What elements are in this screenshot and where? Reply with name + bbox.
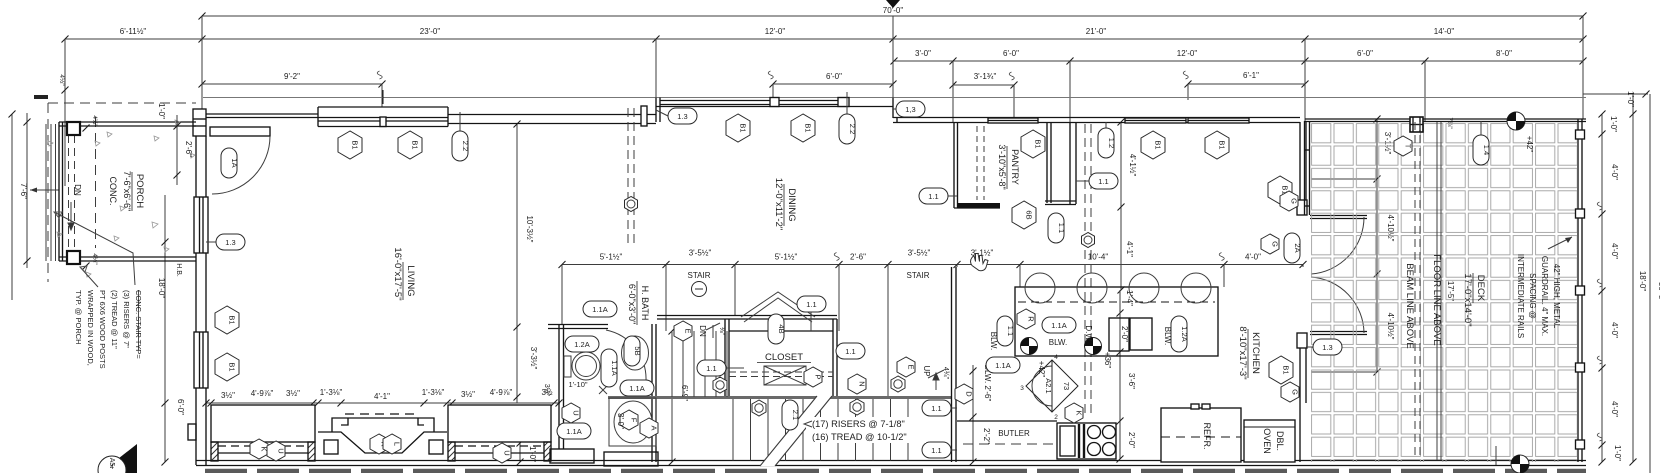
marker 1,3 <box>896 101 925 117</box>
bath walls <box>548 324 656 462</box>
dimension 6'-0" dining <box>768 71 896 88</box>
svg-text:3: 3 <box>1020 385 1024 392</box>
porch post top <box>67 122 80 135</box>
svg-text:5'-1½": 5'-1½" <box>600 253 623 262</box>
section marker A5 <box>98 444 137 473</box>
bottom right small dims 2'-5 1/2" / 1'-0" <box>517 411 538 466</box>
svg-text:21'-0": 21'-0" <box>1086 27 1107 36</box>
dimension row 3: 3'-0", 6'-0", 12'-0", 6'-0", 8'-0" <box>891 49 1587 65</box>
svg-text:(3) RISERS @ 7": (3) RISERS @ 7" <box>122 290 131 348</box>
svg-text:2.2: 2.2 <box>461 141 470 151</box>
svg-text:18'-0": 18'-0" <box>157 278 166 299</box>
nut symbol <box>713 377 727 393</box>
svg-text:1'-0": 1'-0" <box>1609 116 1618 132</box>
svg-text:2A: 2A <box>1293 243 1302 252</box>
svg-text:4'-9⅞": 4'-9⅞" <box>251 389 274 398</box>
stair number circle <box>692 282 707 297</box>
svg-text:B1: B1 <box>411 140 420 149</box>
DN small arrow closet hall <box>706 323 720 338</box>
hall north wall <box>657 316 837 320</box>
svg-text:1.1: 1.1 <box>1057 223 1066 233</box>
svg-text:DN: DN <box>73 184 82 196</box>
deck nook side wall <box>1305 121 1310 215</box>
svg-text:3½": 3½" <box>286 389 300 398</box>
window marker B1 x11 <box>338 131 362 159</box>
svg-text:2'-0": 2'-0" <box>1120 326 1129 342</box>
svg-text:E: E <box>684 328 693 333</box>
svg-text:1.1: 1.1 <box>1006 326 1015 336</box>
stadium 1.3 leaders <box>206 241 216 243</box>
left 7'-6" porch dim <box>9 111 60 301</box>
south bay window <box>318 414 447 454</box>
marker 1.2 <box>1098 128 1116 158</box>
svg-text:4: 4 <box>1054 354 1058 361</box>
marker 1.1A <box>557 423 591 439</box>
svg-text:STAIR: STAIR <box>907 271 930 280</box>
kitchen east wall lower <box>1297 333 1307 462</box>
nut symbol <box>752 400 766 416</box>
svg-text:1.1: 1.1 <box>706 364 716 373</box>
marker 1.1A <box>1042 317 1076 333</box>
svg-text:7'-6": 7'-6" <box>19 183 28 199</box>
marker G <box>1281 382 1300 402</box>
svg-text:STAIR: STAIR <box>688 271 711 280</box>
kitchen side dims 3'-6" / 2'-0" <box>1117 290 1137 463</box>
svg-text:R: R <box>1027 316 1036 322</box>
beam dashed line dining <box>628 108 634 247</box>
svg-text:1.4: 1.4 <box>1482 145 1491 155</box>
living front window <box>318 90 448 127</box>
svg-text:1.1A: 1.1A <box>629 384 644 393</box>
svg-text:6'-0": 6'-0" <box>826 72 842 81</box>
svg-text:B1: B1 <box>351 140 360 149</box>
svg-text:TYP. @ PORCH: TYP. @ PORCH <box>74 290 83 345</box>
svg-text:3'-5½": 3'-5½" <box>689 249 712 258</box>
marker 1.1A <box>583 301 617 317</box>
nut symbol <box>850 399 864 415</box>
spot symbol bottom <box>1511 455 1529 473</box>
svg-text:17'-0"x14'-0": 17'-0"x14'-0" <box>1462 273 1473 326</box>
extension lines from top dims <box>65 16 1583 186</box>
conc stair note block <box>74 290 143 369</box>
deck double doors <box>1310 215 1367 217</box>
svg-text:1'-0": 1'-0" <box>1626 91 1635 107</box>
marker F <box>620 410 639 430</box>
stair break band <box>760 396 832 466</box>
svg-text:+42": +42" <box>1525 136 1534 153</box>
bath vanity <box>622 336 649 370</box>
svg-text:6'-0": 6'-0" <box>1357 49 1373 58</box>
refrigerator <box>1161 404 1241 462</box>
marker 2.1 <box>782 400 800 430</box>
svg-text:BEAM LINE ABOVE: BEAM LINE ABOVE <box>1404 263 1415 349</box>
svg-text:UP: UP <box>922 365 931 376</box>
butler dims BLW 2'-6" / 2'-2" <box>970 365 993 466</box>
svg-text:1,3: 1,3 <box>905 105 915 114</box>
svg-text:3'-1¾": 3'-1¾" <box>974 72 997 81</box>
svg-text:OVEN: OVEN <box>1262 428 1272 454</box>
svg-text:2'-0": 2'-0" <box>1127 432 1136 448</box>
pantry shelf thick bar <box>957 203 1000 208</box>
guardrail note leader <box>1548 237 1572 249</box>
svg-text:BUTLER: BUTLER <box>998 429 1030 438</box>
marker 1.3 <box>1313 339 1342 355</box>
svg-text:N: N <box>858 381 867 386</box>
marker U <box>493 443 512 463</box>
svg-text:B1: B1 <box>228 315 237 324</box>
svg-text:4½": 4½" <box>58 74 66 86</box>
pantry walls <box>954 122 1000 208</box>
svg-text:PT 6X6 WOOD POSTS: PT 6X6 WOOD POSTS <box>98 290 107 369</box>
front door swing arc <box>212 136 270 194</box>
upper stair treads (DN) <box>672 331 727 397</box>
svg-text:6B: 6B <box>1025 210 1034 219</box>
svg-text:FLOOR LINE ABOVE: FLOOR LINE ABOVE <box>1431 254 1442 345</box>
closet hall dim 6'-9" <box>669 328 690 466</box>
UP arrow <box>928 370 944 390</box>
marker N <box>848 374 867 394</box>
room label KITCHEN <box>1237 326 1261 379</box>
marker 1.1 <box>797 296 826 312</box>
mud hall dim 4'-1 1/2" / 4'-1" <box>1117 119 1138 317</box>
marker 1.1 <box>697 360 726 376</box>
marker A <box>640 418 659 438</box>
svg-text:2'-2": 2'-2" <box>982 428 991 444</box>
marker 1.1 <box>922 442 951 458</box>
room label PANTRY <box>997 144 1020 189</box>
svg-text:1.1A: 1.1A <box>566 427 581 436</box>
svg-text:2'-6": 2'-6" <box>184 141 193 157</box>
marker K <box>1065 403 1084 423</box>
svg-text:1'-0": 1'-0" <box>528 446 537 462</box>
closet walls <box>725 319 837 397</box>
svg-text:G: G <box>1290 198 1299 204</box>
bath tub/sink oval <box>609 398 656 446</box>
beam dashed line mud hall <box>1085 124 1091 415</box>
marker 2.2 <box>452 131 470 161</box>
svg-text:1.1A: 1.1A <box>592 305 607 314</box>
porch roof dashed outline <box>48 103 196 282</box>
marker 6B <box>1012 201 1036 229</box>
svg-text:4'-0": 4'-0" <box>1610 401 1619 417</box>
entry wall segment <box>206 114 318 118</box>
marker T <box>1394 136 1413 156</box>
marker 1.1 <box>836 343 865 359</box>
spot symbol top <box>1507 112 1525 130</box>
svg-text:DN: DN <box>698 325 707 337</box>
svg-text:3½": 3½" <box>221 391 235 400</box>
porch post bottom <box>67 251 80 264</box>
marker P <box>804 367 823 387</box>
svg-text:(17) RISERS @ 7-1/8": (17) RISERS @ 7-1/8" <box>812 419 905 429</box>
svg-text:T: T <box>1404 144 1413 149</box>
svg-text:5'-1½": 5'-1½" <box>775 253 798 262</box>
svg-text:4'-1½": 4'-1½" <box>1128 154 1137 177</box>
dimension row 2: 6'-11 1/2", 23'-0", 12'-0", 21'-0", 14'-0" <box>62 27 1587 43</box>
svg-text:4'-0": 4'-0" <box>1610 322 1619 338</box>
marker 1.1 <box>997 316 1015 346</box>
svg-text:73: 73 <box>1062 382 1071 390</box>
bath door swing <box>606 330 646 381</box>
svg-text:B1: B1 <box>1218 140 1227 149</box>
right 18'-0" overall <box>1583 91 1660 473</box>
svg-text:PORCH: PORCH <box>134 174 145 208</box>
note leader bent <box>54 212 135 287</box>
stair dim row <box>559 249 1307 271</box>
guardrail posts <box>1576 130 1585 449</box>
svg-text:1'-10": 1'-10" <box>568 380 587 389</box>
svg-text:1'-3⅛": 1'-3⅛" <box>320 388 343 397</box>
svg-text:1.3: 1.3 <box>225 238 235 247</box>
svg-text:+36": +36" <box>1103 352 1112 369</box>
svg-text:3'-0": 3'-0" <box>616 413 625 429</box>
svg-text:1.2A: 1.2A <box>574 340 589 349</box>
svg-text:DBL.: DBL. <box>1275 431 1285 451</box>
marker G <box>1261 234 1280 254</box>
range <box>1057 423 1116 459</box>
svg-text:U: U <box>572 410 581 415</box>
svg-text:H. BATH: H. BATH <box>640 286 650 321</box>
svg-text:B1: B1 <box>1282 365 1291 374</box>
pantry/kitchen front wall <box>893 118 1300 124</box>
svg-text:42" HIGH, METAL: 42" HIGH, METAL <box>1552 264 1561 329</box>
marker E <box>897 357 916 377</box>
svg-text:18'-0": 18'-0" <box>1638 271 1647 292</box>
dining front window band <box>656 92 893 112</box>
svg-text:G: G <box>1291 389 1300 395</box>
svg-text:1.3: 1.3 <box>1322 343 1332 352</box>
lower level dashed heavy <box>205 469 1586 473</box>
svg-text:B1: B1 <box>228 362 237 371</box>
svg-text:12'-0": 12'-0" <box>1177 49 1198 58</box>
stair notes <box>806 417 926 443</box>
marker U <box>267 441 286 461</box>
svg-text:GUARDRAIL. 4" MAX.: GUARDRAIL. 4" MAX. <box>1540 256 1549 336</box>
hatched wall seg bath right <box>604 452 658 466</box>
svg-text:1.2: 1.2 <box>1107 138 1116 148</box>
svg-text:5B: 5B <box>633 346 642 355</box>
svg-text:SPACING @: SPACING @ <box>1528 273 1537 319</box>
svg-text:U: U <box>503 450 512 455</box>
porch roof corner black dash <box>34 95 48 99</box>
svg-text:L: L <box>393 442 402 446</box>
west wall <box>194 136 208 465</box>
svg-text:1A: 1A <box>230 158 239 167</box>
svg-text:6'-0": 6'-0" <box>1003 49 1019 58</box>
left 18'-0" interior <box>157 195 185 466</box>
marker 4B <box>768 314 786 344</box>
marker 1.1 <box>919 188 948 204</box>
marker 2A <box>1284 233 1302 263</box>
svg-text:G: G <box>1271 241 1280 247</box>
beam line above (dashed) <box>1415 122 1420 460</box>
kitchen island <box>1015 287 1218 356</box>
svg-text:6'-0"x3'-0": 6'-0"x3'-0" <box>627 284 637 324</box>
svg-text:(2) TREAD @ 11": (2) TREAD @ 11" <box>110 290 119 349</box>
room label DINING <box>773 178 797 230</box>
svg-text:E: E <box>907 364 916 369</box>
svg-text:B1: B1 <box>1154 140 1163 149</box>
deck north edge <box>1305 119 1586 122</box>
svg-text:DINING: DINING <box>786 188 797 221</box>
svg-text:F: F <box>630 418 639 423</box>
svg-text:4'-0": 4'-0" <box>1610 164 1619 180</box>
svg-text:CONC.: CONC. <box>108 177 118 206</box>
marker 1.1A <box>620 380 654 396</box>
marker U <box>562 403 581 423</box>
marker G <box>1280 191 1299 211</box>
hatched wall seg bath left <box>550 449 594 463</box>
svg-text:4½": 4½" <box>91 253 99 265</box>
porch beam dashed <box>69 135 75 251</box>
svg-text:BLW.: BLW. <box>1049 338 1068 347</box>
svg-text:1.1: 1.1 <box>845 347 855 356</box>
svg-text:2.1: 2.1 <box>791 410 800 420</box>
svg-text:BLW.: BLW. <box>989 332 998 351</box>
svg-text:1.3: 1.3 <box>677 112 687 121</box>
svg-text:K: K <box>1075 410 1084 415</box>
marker 1.1 <box>922 400 951 416</box>
closet gable peak <box>741 292 815 322</box>
mud closet walls <box>1045 122 1076 205</box>
svg-text:B1: B1 <box>1034 139 1043 148</box>
south window 1 <box>211 405 315 461</box>
svg-text:D: D <box>965 391 974 397</box>
svg-text:1.1A: 1.1A <box>610 360 619 375</box>
svg-text:3'-5½": 3'-5½" <box>908 249 931 258</box>
svg-text:1.1: 1.1 <box>931 404 941 413</box>
svg-text:A5: A5 <box>108 458 115 467</box>
svg-text:8'-0": 8'-0" <box>1496 49 1512 58</box>
kitchen-front wall corner at x893 <box>893 98 897 123</box>
svg-text:3'-0": 3'-0" <box>915 49 931 58</box>
marker 1.1A <box>986 357 1020 373</box>
label CLOSET <box>757 352 811 363</box>
svg-text:2.2: 2.2 <box>848 124 857 134</box>
bath toilet <box>564 352 600 380</box>
double oven <box>1244 420 1295 462</box>
stair dim extension lines <box>562 265 1303 399</box>
NW corner jamb <box>193 109 206 136</box>
room label LIVING <box>392 247 416 300</box>
svg-text:3'-10"x5'-8": 3'-10"x5'-8" <box>997 144 1007 189</box>
svg-text:DECK: DECK <box>1475 275 1486 302</box>
pantry right wall <box>1047 122 1051 203</box>
living interior dim 10'-3 1/4" / 3'-3 1/2" <box>514 121 552 404</box>
marker R <box>1017 309 1036 329</box>
nut symbol <box>625 197 638 212</box>
svg-text:A2.1: A2.1 <box>1044 378 1053 393</box>
right side dims 1'-0",4'-0" x4 <box>1597 111 1622 466</box>
svg-text:(16) TREAD @ 10-1/2": (16) TREAD @ 10-1/2" <box>812 432 907 442</box>
marker 5B <box>624 336 642 366</box>
svg-text:B1: B1 <box>739 123 748 132</box>
svg-text:REFR.: REFR. <box>1202 423 1212 450</box>
svg-text:1.1A: 1.1A <box>1051 321 1066 330</box>
svg-text:3½: 3½ <box>541 388 552 397</box>
svg-text:4'-0": 4'-0" <box>1245 253 1261 262</box>
svg-text:1'-0": 1'-0" <box>1613 445 1622 461</box>
svg-text:4B: 4B <box>777 324 786 333</box>
svg-text:4'-1": 4'-1" <box>374 392 390 401</box>
porch slab <box>59 122 196 261</box>
svg-text:KITCHEN: KITCHEN <box>1250 332 1261 374</box>
marker 1.4 <box>1473 135 1491 165</box>
marker E <box>674 321 693 341</box>
south window 2 <box>448 405 551 461</box>
svg-text:2: 2 <box>1054 414 1058 421</box>
deck interior dim 4'-10 1/2" x2 <box>1311 116 1395 376</box>
roof line above <box>203 97 1586 99</box>
svg-text:4½": 4½" <box>91 115 99 127</box>
svg-text:1.1: 1.1 <box>928 192 938 201</box>
main stair treads <box>733 399 908 461</box>
dining jog corner <box>656 98 660 123</box>
bottom dim row (south windows) <box>203 388 563 407</box>
A2.1 section diamond <box>1020 354 1078 421</box>
dimension 70'-0" overall <box>199 0 1587 20</box>
svg-text:1.2A: 1.2A <box>1180 326 1189 341</box>
svg-text:4'-1": 4'-1" <box>1125 241 1134 257</box>
marker 1A <box>221 148 239 178</box>
svg-text:⅜": ⅜" <box>718 327 725 336</box>
svg-text:D.W.: D.W. <box>1084 325 1093 342</box>
svg-text:7'-6"x6'-6": 7'-6"x6'-6" <box>122 171 132 211</box>
svg-text:6'-11½": 6'-11½" <box>120 27 147 36</box>
marker K <box>370 434 389 454</box>
nut symbol <box>891 376 905 392</box>
svg-text:4¾": 4¾" <box>942 367 949 380</box>
svg-text:6'-0": 6'-0" <box>176 399 185 415</box>
svg-text:14'-0": 14'-0" <box>1434 27 1455 36</box>
svg-text:+42": +42" <box>1037 361 1046 378</box>
svg-text:3'-3½": 3'-3½" <box>529 347 538 370</box>
marker 1.3 <box>216 234 245 250</box>
marker 1.1 <box>1048 213 1066 243</box>
deck center post line <box>1495 446 1497 465</box>
svg-text:CLOSET: CLOSET <box>765 352 803 363</box>
svg-text:1.1: 1.1 <box>931 446 941 455</box>
island pie symbols <box>1021 338 1038 355</box>
svg-text:1'-3⅛": 1'-3⅛" <box>422 388 445 397</box>
svg-text:1.1A: 1.1A <box>995 361 1010 370</box>
concrete stipple <box>48 120 195 277</box>
svg-text:6'-1": 6'-1" <box>1243 71 1259 80</box>
wall living-dining <box>448 106 656 126</box>
svg-text:U: U <box>277 448 286 453</box>
marker L <box>383 434 402 454</box>
porch room label <box>108 171 145 211</box>
svg-text:H.B.: H.B. <box>175 263 182 277</box>
marker 2.2 <box>839 114 857 144</box>
kitchen east wall upper <box>1297 122 1307 215</box>
hand cursor artifact <box>971 254 989 271</box>
svg-text:10'-3½": 10'-3½" <box>525 215 534 242</box>
stair hall right wall <box>952 267 957 462</box>
svg-text:9'-2": 9'-2" <box>284 72 300 81</box>
floor line above <box>1437 122 1441 460</box>
marker 1.1 <box>1089 173 1118 189</box>
svg-text:4'-0": 4'-0" <box>1610 243 1619 259</box>
pantry shelving dashed <box>977 126 984 200</box>
island stools <box>1025 273 1211 303</box>
svg-text:1.1: 1.1 <box>1098 177 1108 186</box>
svg-text:4'-9⅞": 4'-9⅞" <box>490 388 513 397</box>
svg-text:P: P <box>814 374 823 379</box>
svg-text:1'-0": 1'-0" <box>157 103 166 119</box>
closet interior <box>729 366 833 385</box>
room label DECK <box>1462 273 1486 327</box>
